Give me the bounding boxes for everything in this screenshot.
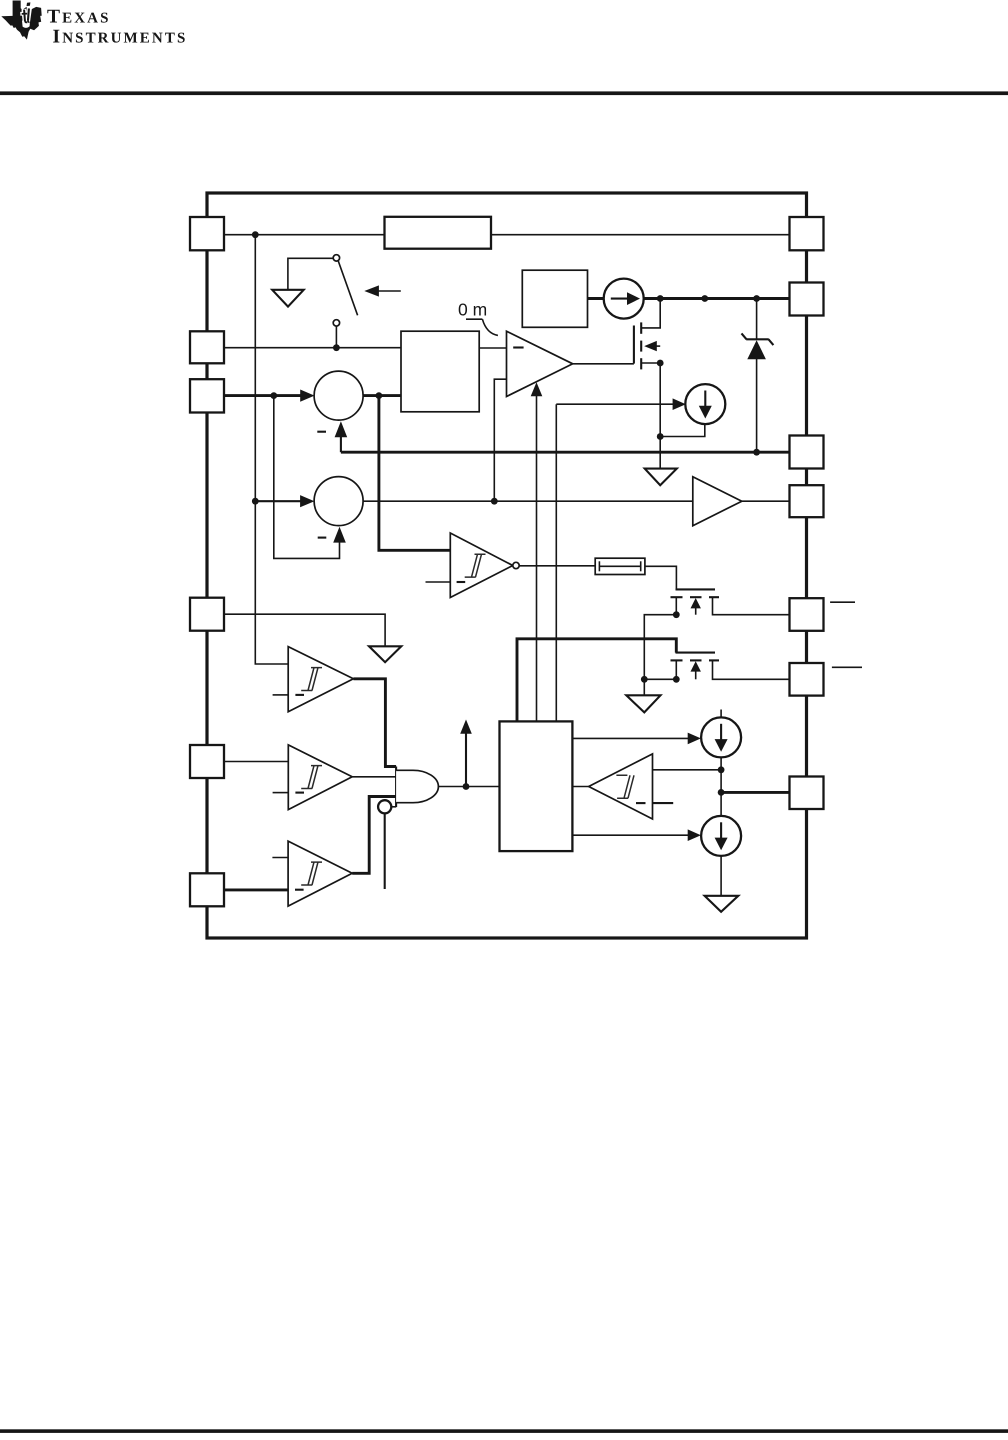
- wire: pin2 to DAC block with switch tap: [224, 347, 401, 349]
- AND gate inverted input lead: [384, 813, 386, 889]
- comparator C4 input from pin6 (thick): [224, 888, 288, 891]
- C2 reference stub: [273, 694, 289, 696]
- comparator C2: [288, 647, 353, 712]
- fault FET Q3 gate bar: [676, 652, 716, 654]
- comparator C1 (hysteresis, inverting out): [450, 533, 513, 598]
- hysteresis glyph C3: [301, 766, 322, 789]
- minus label C3: [295, 792, 304, 794]
- minus label C2: [295, 694, 304, 696]
- wire: pin4 to ground: [224, 614, 385, 646]
- summing node S2: [314, 477, 363, 526]
- pin label overline (upper right): [830, 601, 855, 603]
- amp feedback wire: [494, 379, 506, 501]
- pin R5: [790, 598, 824, 631]
- switch actuation arrow: [377, 290, 401, 292]
- pin L2: [190, 331, 224, 363]
- fault FET Q2 body arrow: [695, 607, 697, 615]
- C1 reference stub: [426, 581, 451, 583]
- minus label C1: [457, 581, 466, 583]
- pass FET Q1 gate bar: [633, 326, 635, 364]
- summing node S1 output wire to DAC: [363, 394, 401, 397]
- pass FET Q1 channel segments: [640, 322, 642, 333]
- junction dot Q2 source: [673, 611, 680, 618]
- pin L4: [190, 598, 224, 631]
- svg-text:0 m: 0 m: [458, 300, 487, 320]
- AND gate inverted input bubble: [391, 806, 396, 808]
- current source I2 input arrow wire: [556, 403, 678, 405]
- TI logo bug (Texas map): [1, 1, 41, 40]
- ground (I4): [705, 896, 739, 912]
- pin L1: [190, 217, 224, 250]
- junction dot FET source / current source return: [657, 433, 664, 440]
- junction dot S1 output branch: [376, 392, 383, 399]
- current source I2: [685, 384, 725, 424]
- summing node S2 input arrow: [255, 500, 307, 502]
- hysteresis glyph C4: [301, 862, 322, 885]
- minus label amp: [513, 346, 523, 348]
- IC boundary frame: [207, 193, 807, 938]
- DAC block: [401, 331, 479, 412]
- summing node S2 output wire to buffer: [363, 500, 693, 502]
- current source I1: [604, 279, 644, 319]
- fault FET Q3 source lead: [675, 660, 677, 679]
- fault FET Q3 drain lead to right pin: [713, 660, 790, 679]
- switch S1 lever: [338, 261, 357, 316]
- pin R4: [790, 485, 824, 517]
- C3 output to AND gate: [352, 776, 396, 778]
- buffer amp U2: [693, 477, 742, 526]
- pin R2: [790, 283, 824, 316]
- footer rule: [0, 1429, 1008, 1433]
- logic output to current source I4: [572, 834, 693, 836]
- comparator C3 input from pin5: [224, 761, 288, 763]
- switch S1 ground wire: [288, 258, 333, 290]
- hysteresis glyph C1: [465, 554, 486, 577]
- wire: Q2 source to ground rail: [644, 615, 676, 696]
- pin R1: [790, 217, 824, 250]
- svg-text:TEXAS: TEXAS: [47, 7, 111, 28]
- comparator C4: [288, 841, 352, 906]
- junction dot C5/pull node: [718, 766, 725, 773]
- junction dot at switch tap: [333, 344, 340, 351]
- junction dot FET source corner: [657, 360, 664, 367]
- C3 reference stub: [273, 792, 289, 794]
- ground (FET source): [645, 469, 677, 486]
- current source I4 ground lead: [720, 856, 722, 896]
- zener diode D1 anode lead: [756, 359, 758, 452]
- fault FET Q2 source lead: [675, 597, 677, 615]
- wire: C1 output to deglitch filter: [519, 565, 595, 567]
- thick gate-drive wire from logic box to FET Q3: [517, 639, 676, 722]
- wire: Q3 source to ground node: [644, 678, 676, 680]
- junction dot S1 input branch: [270, 392, 277, 399]
- logic output to comparator C5: [572, 786, 588, 788]
- current-limit resistor block: [385, 217, 492, 249]
- zener diode D1: [742, 333, 774, 359]
- pass FET Q1 body stub with arrow: [657, 345, 661, 347]
- C1 output bubble: [513, 562, 519, 568]
- wire: pull node to right pin7: [721, 791, 789, 794]
- ground (pin4): [369, 646, 401, 662]
- pin R3: [790, 436, 824, 469]
- pass FET Q1 source lead: [641, 363, 660, 469]
- ground (fault FETs): [626, 695, 660, 712]
- summing node S1 input wire from pin3: [224, 394, 307, 397]
- pin R7: [790, 777, 824, 810]
- ground (switch): [272, 290, 304, 307]
- soft-start ramp arrow into amp: [536, 396, 538, 722]
- reference block: [522, 270, 587, 327]
- current source I4: [701, 816, 741, 856]
- minus label C5: [636, 802, 646, 804]
- ground return bus to right pin: [341, 451, 790, 454]
- junction dot rail/pass-FET: [657, 295, 664, 302]
- comparator C3: [288, 745, 352, 810]
- wire: pin1 to current-limit resistor block and across to right pin: [224, 234, 385, 236]
- switch S1 upper terminal: [333, 255, 339, 261]
- fault FET Q2 gate bar: [676, 588, 716, 590]
- junction dot Q3 source: [673, 676, 680, 683]
- wire: DAC to error amp: [479, 347, 506, 349]
- deglitch filter block: [595, 558, 645, 574]
- junction dot ground node: [641, 676, 648, 683]
- summing node S1 feedback arrow from bus: [340, 435, 342, 452]
- junction dot zener/bus: [753, 449, 760, 456]
- wire I3 to pull node: [720, 757, 722, 816]
- pin label overline (lower right): [832, 666, 862, 668]
- summing node S1: [314, 371, 363, 420]
- hysteresis glyph C5: [616, 775, 634, 798]
- C4 output to AND gate (thick): [352, 797, 396, 874]
- svg-text:INSTRUMENTS: INSTRUMENTS: [53, 27, 188, 48]
- junction dot AND output: [463, 783, 470, 790]
- pin R6: [790, 663, 824, 696]
- minus label S2: [318, 537, 327, 539]
- C2 output to AND gate (thick): [353, 679, 396, 767]
- fault FET Q2 drain lead to right pin: [713, 597, 790, 615]
- error amp output wire to FET gate: [573, 363, 634, 365]
- header rule: [0, 91, 1008, 95]
- pin L3: [190, 379, 224, 412]
- wire: reference block to current source: [588, 297, 605, 300]
- C5 output wire: [653, 769, 722, 771]
- switch S1 lower terminal: [333, 320, 339, 326]
- current source I3: [701, 717, 741, 757]
- error amp U1: [507, 331, 573, 396]
- wire: x556 branch down to logic box: [555, 404, 557, 721]
- junction dot pull node to pin: [718, 789, 725, 796]
- fault FET Q2 channel segments: [671, 596, 683, 598]
- wire: current source I2 return: [660, 424, 705, 436]
- C4 reference stub (upper): [272, 857, 288, 859]
- fault FET Q3 channel segments: [671, 659, 683, 661]
- wire: buffer to right pin: [742, 500, 790, 502]
- junction dot at S2 input: [252, 498, 259, 505]
- enable arrow up from AND output node: [465, 732, 467, 787]
- minus label S1: [317, 431, 326, 433]
- wire: filter to fault FET Q2 gate: [645, 566, 677, 589]
- junction dot S2 output / amp feedback: [491, 498, 498, 505]
- comparator C5 (left facing): [589, 754, 653, 819]
- VIN rail wire to right pin: [644, 297, 790, 300]
- node A junction dot: [252, 231, 259, 238]
- logic output to current source I3: [572, 737, 693, 739]
- thick branch from S1 output to comparator C1: [379, 396, 450, 551]
- minus label C4: [295, 889, 304, 891]
- AND gate G1: [396, 767, 438, 808]
- pass FET Q1 drain lead: [641, 299, 660, 328]
- pin L6: [190, 873, 224, 906]
- C5 reference stub (right): [653, 802, 674, 804]
- AND gate output wire to logic box: [438, 786, 499, 788]
- current source I3 top stub: [720, 710, 722, 718]
- wire: branch x273 down to summing node S2 minus input: [274, 396, 340, 559]
- control logic box: [500, 721, 573, 851]
- fault FET Q3 body arrow: [695, 670, 697, 679]
- zener diode D1 cathode lead: [756, 299, 758, 341]
- junction dot rail/zener: [753, 295, 760, 302]
- hysteresis glyph C2: [301, 668, 322, 691]
- junction dot rail/current source: [701, 295, 708, 302]
- switch S1 stem to input wire: [335, 326, 337, 348]
- pin L5: [190, 745, 224, 778]
- wire: left vertical bus from node A down to comparators: [255, 235, 288, 664]
